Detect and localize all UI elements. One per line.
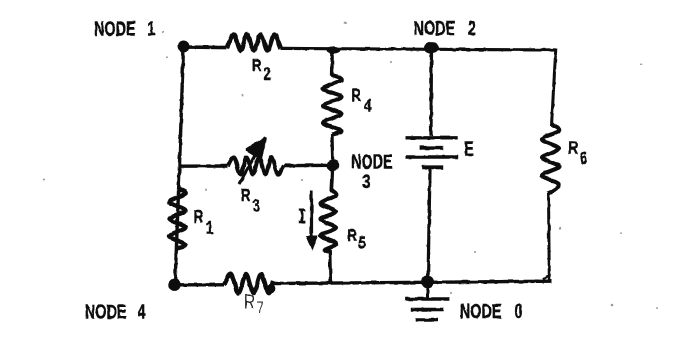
svg-text:R: R	[347, 226, 357, 245]
wire bottom horizontal R7 to ground node to right corner	[273, 281, 552, 283]
label NODE 4	[85, 300, 146, 323]
resistor R2	[227, 34, 281, 50]
ground node (node 0 junction)	[421, 276, 434, 289]
svg-text:1: 1	[147, 17, 155, 40]
node 1	[178, 41, 190, 53]
label NODE 2	[414, 17, 476, 40]
svg-text:7: 7	[257, 299, 263, 316]
battery E	[406, 138, 459, 168]
node 3	[327, 159, 339, 171]
svg-text:E: E	[464, 137, 474, 160]
svg-text:NODE: NODE	[94, 17, 136, 40]
wire bottom horizontal node4 to R7	[175, 283, 225, 286]
resistor R3 (variable)	[228, 157, 284, 174]
resistor R4	[323, 75, 342, 135]
wire R5 bottom to bottom wire	[328, 250, 332, 282]
wire branch from top wire down to R4	[327, 46, 341, 76]
wire right vertical R6 down to bottom corner	[543, 194, 549, 281]
svg-text:2: 2	[264, 65, 272, 84]
resistor R1	[170, 189, 186, 249]
label R1	[194, 208, 214, 238]
scan noise specks	[43, 22, 658, 309]
svg-text:1: 1	[206, 219, 214, 238]
label NODE 1	[94, 17, 155, 40]
svg-text:R: R	[252, 56, 262, 75]
resistor R6	[542, 124, 559, 194]
wire middle horizontal R3 row	[180, 164, 334, 168]
label E	[464, 137, 474, 160]
svg-text:3: 3	[363, 170, 371, 193]
svg-text:R: R	[244, 290, 255, 313]
label R4	[351, 86, 371, 116]
svg-text:6: 6	[580, 149, 588, 168]
svg-text:4: 4	[138, 300, 146, 323]
label R2	[252, 56, 271, 84]
wire node3 down to R5	[332, 165, 333, 192]
label NODE 0	[460, 300, 523, 323]
svg-text:5: 5	[358, 234, 366, 253]
svg-text:NODE: NODE	[85, 300, 127, 323]
svg-text:R: R	[241, 186, 251, 205]
label R5	[347, 226, 366, 253]
svg-text:R: R	[351, 86, 361, 105]
wire top horizontal node1 to top-right corner	[182, 47, 556, 50]
label R7	[244, 290, 264, 315]
label I	[299, 210, 306, 222]
svg-text:4: 4	[364, 97, 372, 116]
node 4	[168, 279, 180, 291]
wire R4 bottom to node 3	[330, 134, 334, 165]
resistor R7	[224, 274, 275, 293]
svg-text:NODE: NODE	[460, 300, 502, 323]
svg-text:R: R	[194, 208, 204, 227]
node 2	[424, 42, 439, 53]
label NODE 3	[351, 150, 393, 193]
label R3	[241, 186, 260, 216]
svg-text:0: 0	[515, 300, 523, 323]
label R6	[568, 139, 587, 168]
svg-text:NODE: NODE	[351, 150, 393, 173]
wire battery bottom to ground node	[428, 169, 430, 281]
resistor R5	[321, 190, 337, 252]
wire left vertical node1 to node4	[175, 47, 184, 285]
wire battery branch from node2 down	[429, 48, 433, 136]
ground symbol	[405, 282, 450, 320]
svg-text:NODE: NODE	[414, 17, 456, 40]
wire right vertical top corner down to R6	[552, 49, 556, 127]
svg-text:3: 3	[253, 197, 261, 216]
arrow of R3	[239, 139, 265, 184]
svg-text:2: 2	[468, 17, 476, 40]
current arrow I	[305, 191, 318, 252]
svg-text:R: R	[568, 139, 578, 158]
